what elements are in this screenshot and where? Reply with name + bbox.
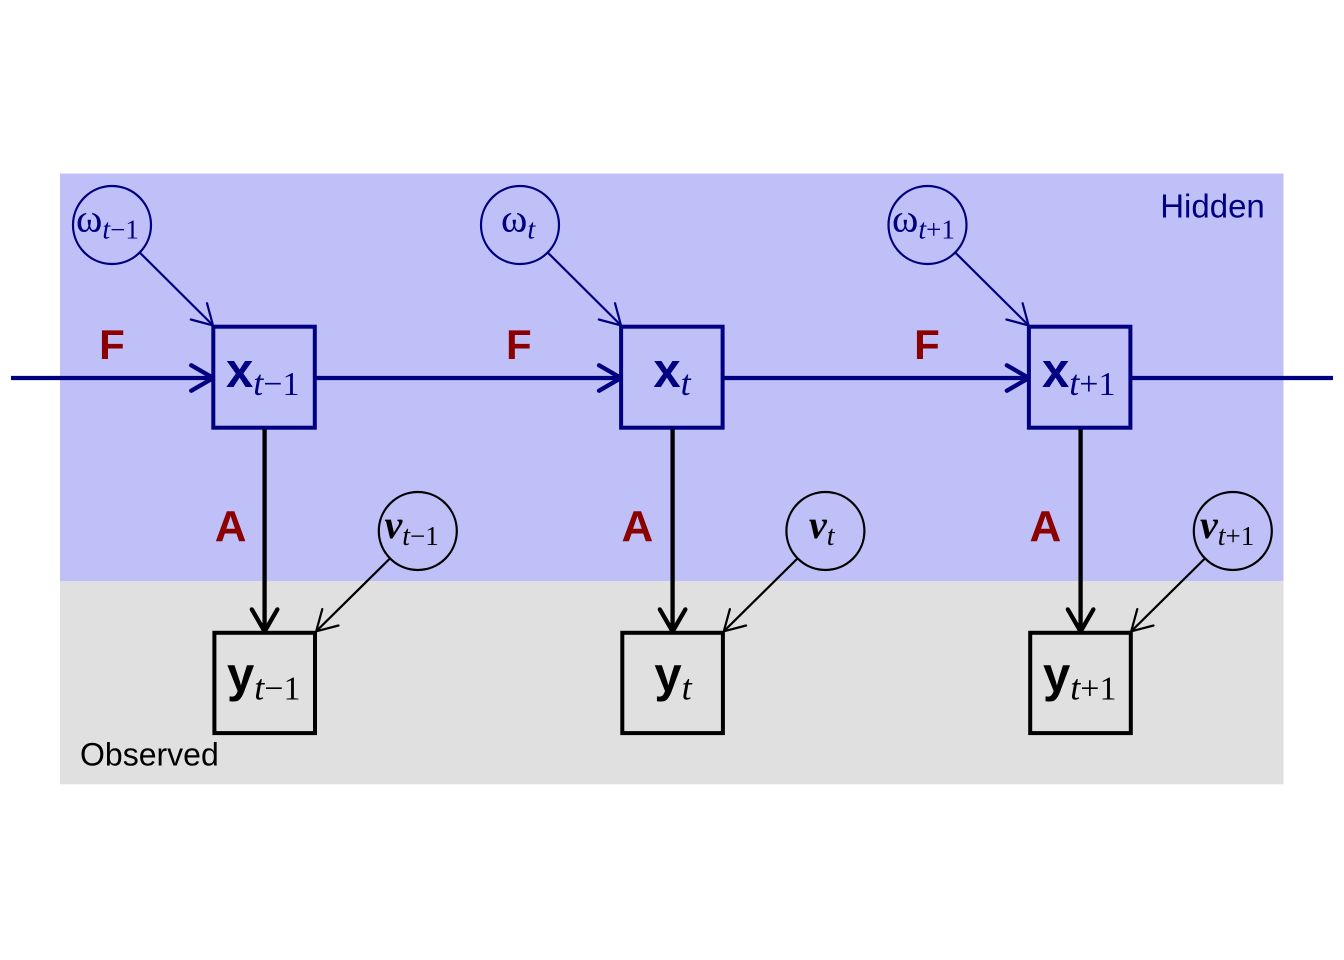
node x_t square	[621, 327, 723, 428]
observed band	[60, 581, 1284, 784]
svg-text:A: A	[622, 502, 654, 551]
wire omega_t to x_t	[548, 253, 621, 326]
node x_{t+1} square	[1029, 327, 1131, 428]
node nu_{t-1} circle	[379, 492, 457, 570]
wire nu_{t-1} to y_{t-1}	[316, 558, 390, 631]
svg-text:F: F	[506, 321, 532, 368]
arrowhead into x_{t+1}	[1007, 365, 1029, 390]
hidden band	[60, 174, 1284, 582]
svg-text:F: F	[99, 321, 125, 368]
node omega_t circle	[481, 186, 559, 264]
wire A arrow x_{t-1} to y_{t-1}	[262, 429, 266, 632]
wire nu_{t+1} to y_{t+1}	[1131, 558, 1205, 631]
wire omega_{t+1} to x_{t+1}	[955, 253, 1028, 326]
node omega_{t+1} circle	[889, 186, 967, 264]
node y_{t+1} square	[1030, 633, 1131, 733]
svg-text:F: F	[914, 321, 940, 368]
node nu_t circle	[786, 492, 864, 570]
wire nu_t to y_t	[724, 558, 798, 631]
node y_t square	[622, 633, 723, 733]
arrowhead into x_t	[599, 365, 621, 390]
svg-text:Hidden: Hidden	[1160, 188, 1265, 225]
wire A arrow x_t to y_t	[670, 429, 674, 632]
node nu_{t+1} circle	[1194, 492, 1272, 570]
node y_{t-1} square	[214, 633, 315, 733]
svg-text:A: A	[1030, 502, 1062, 551]
svg-text:A: A	[215, 502, 247, 551]
arrowhead into x_{t-1}	[191, 365, 213, 390]
node omega_{t-1} circle	[73, 186, 151, 264]
svg-text:Observed: Observed	[80, 736, 219, 772]
node x_{t-1} square	[213, 327, 314, 428]
wire A arrow x_{t+1} to y_{t+1}	[1078, 429, 1082, 632]
wire F horizontal line	[11, 376, 1333, 380]
wire omega_{t-1} to x_{t-1}	[140, 253, 213, 326]
